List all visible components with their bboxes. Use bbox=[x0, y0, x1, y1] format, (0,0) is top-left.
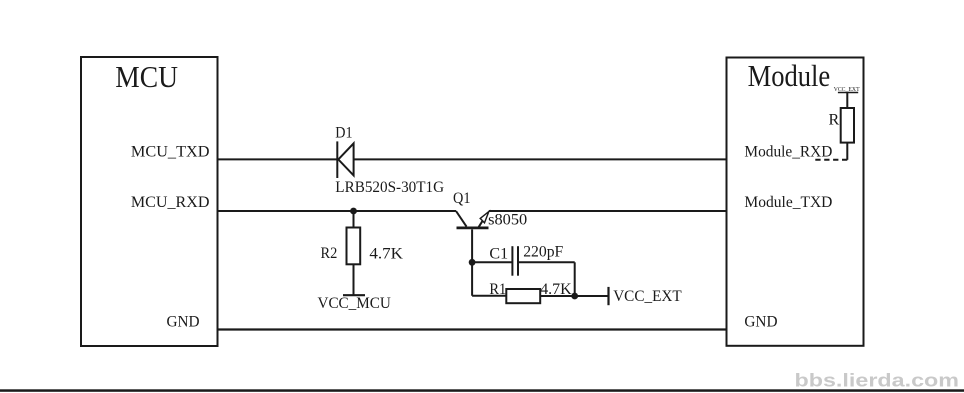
transistor Q1 emitter arrowhead bbox=[480, 212, 489, 223]
resistor R1 body bbox=[506, 289, 540, 303]
diode D1 triangle bbox=[338, 143, 353, 175]
wire to capacitor C1 left plate bbox=[472, 261, 512, 263]
svg-text:MCU_TXD: MCU_TXD bbox=[131, 144, 210, 161]
svg-text:Module_RXD: Module_RXD bbox=[744, 144, 832, 161]
node junction dot at Q1 base / C1 branch bbox=[469, 259, 476, 266]
wire node to VCC_EXT symbol bbox=[575, 295, 608, 297]
svg-text:C1: C1 bbox=[489, 246, 508, 263]
MCU box U-MCU bbox=[81, 57, 218, 346]
wire GND net MCU to Module bbox=[218, 328, 727, 330]
power symbol VCC_EXT bar bbox=[607, 287, 609, 305]
resistor R2 body bbox=[347, 228, 361, 265]
resistor R body (in Module) bbox=[841, 108, 854, 143]
power symbol VCC_EXT (in Module) bar bbox=[838, 92, 858, 94]
svg-text:bbs.lierda.com: bbs.lierda.com bbox=[795, 369, 960, 390]
svg-text:MCU: MCU bbox=[115, 60, 178, 94]
wire dashed from R to Module_RXD bbox=[812, 159, 847, 161]
svg-text:R2: R2 bbox=[321, 245, 338, 262]
wire corner down to R1 output node bbox=[574, 262, 576, 296]
svg-text:220pF: 220pF bbox=[523, 244, 563, 261]
svg-text:R: R bbox=[829, 111, 840, 128]
resistor R2 lead top bbox=[353, 211, 355, 228]
node junction dot R1/C1 output bbox=[571, 293, 578, 300]
diode D1 cathode bar bbox=[336, 141, 338, 178]
transistor Q1 base bar bbox=[457, 227, 489, 230]
svg-text:Module: Module bbox=[748, 58, 831, 93]
transistor Q1 collector lead bbox=[456, 211, 467, 227]
wire MCU_RXD to Q1 collector bbox=[218, 210, 457, 212]
svg-text:Module_TXD: Module_TXD bbox=[744, 194, 832, 211]
svg-text:GND: GND bbox=[167, 314, 200, 331]
svg-text:Q1: Q1 bbox=[453, 190, 471, 207]
resistor R2 lead bottom bbox=[353, 264, 355, 295]
wire VCC_EXT bar to resistor R bbox=[846, 93, 848, 109]
transistor Q1 emitter lead bbox=[479, 214, 488, 228]
bottom border line bbox=[0, 389, 964, 392]
capacitor C1 left plate bbox=[511, 246, 513, 276]
svg-text:VCC_MCU: VCC_MCU bbox=[318, 295, 392, 312]
power symbol VCC_MCU bar bbox=[343, 294, 365, 296]
wire C1 right plate to corner bbox=[518, 261, 575, 263]
wire to resistor R1 left bbox=[472, 295, 506, 297]
wire resistor R lead down bbox=[846, 143, 848, 160]
node junction dot on MCU_RXD wire at R2 bbox=[350, 208, 357, 215]
capacitor C1 right plate bbox=[517, 246, 519, 276]
Module box U-Module bbox=[727, 58, 864, 346]
svg-text:VCC_EXT: VCC_EXT bbox=[613, 288, 682, 305]
svg-text:MCU_RXD: MCU_RXD bbox=[131, 194, 210, 211]
svg-text:4.7K: 4.7K bbox=[369, 246, 403, 263]
wire R1 right to node bbox=[540, 295, 575, 297]
wire Q1 base lead down bbox=[471, 229, 473, 295]
svg-text:s8050: s8050 bbox=[488, 212, 527, 229]
svg-text:R1: R1 bbox=[489, 281, 506, 298]
svg-text:LRB520S-30T1G: LRB520S-30T1G bbox=[335, 179, 444, 196]
svg-text:D1: D1 bbox=[335, 124, 352, 141]
svg-text:GND: GND bbox=[744, 314, 777, 331]
wire MCU_TXD to diode D1 cathode bbox=[218, 158, 338, 160]
wire diode D1 anode to Module_RXD bbox=[354, 158, 727, 160]
wire Q1 emitter to Module_TXD bbox=[489, 210, 727, 212]
